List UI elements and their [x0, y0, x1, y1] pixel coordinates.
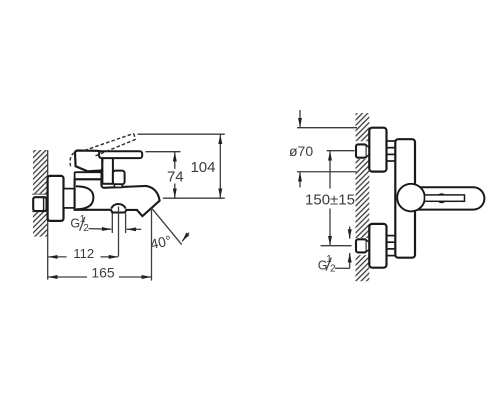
svg-text:104: 104 — [190, 159, 215, 176]
svg-text:ø70: ø70 — [289, 143, 313, 159]
74 dim — [174, 152, 176, 169]
ext line top (104) — [138, 133, 225, 135]
svg-text:2: 2 — [330, 264, 336, 275]
wall flange (escutcheon, side) — [48, 176, 64, 221]
150+-15 dim — [329, 151, 331, 188]
bottom flange — [369, 224, 386, 268]
center tick bottom — [321, 245, 352, 247]
lever bar (solid, horizontal) — [99, 151, 142, 158]
lever base (cartridge cover) — [75, 151, 102, 172]
bottom hex nut — [356, 239, 369, 252]
flange top ext line — [297, 127, 357, 129]
svg-text:G: G — [70, 217, 80, 231]
white bands for nuts — [355, 141, 369, 159]
G1/2 arrows right view — [349, 227, 351, 239]
wall face extension line — [47, 150, 49, 280]
104 dim — [219, 135, 221, 151]
G1/2 arrows — [89, 228, 112, 231]
svg-text:150±15: 150±15 — [305, 191, 355, 208]
supply pipe white band — [32, 194, 48, 212]
dome (check valve cap) — [76, 186, 93, 209]
supply nut G1/2 (in wall) — [33, 197, 46, 211]
dimension text G1/2 right view — [318, 254, 336, 275]
connector stub — [64, 189, 75, 208]
diverter knob — [113, 171, 125, 185]
baseline y=198.2 — [163, 197, 225, 199]
112 dim line — [48, 256, 66, 258]
bottom threaded connector — [387, 236, 396, 256]
wall hatch left view — [33, 150, 48, 237]
body column — [395, 139, 415, 258]
dashed lever (raised position) — [70, 134, 136, 167]
dia70 arrows — [299, 110, 301, 127]
spout tip ext line — [151, 208, 153, 280]
center tick top — [327, 150, 355, 152]
40 degree diagonal — [152, 208, 182, 244]
aerator arch — [111, 204, 125, 209]
flange bottom ext line — [297, 171, 357, 173]
collar band — [75, 172, 102, 179]
svg-text:112: 112 — [73, 246, 94, 261]
dimension text G1/2 left view — [70, 214, 89, 234]
lever (front, stadium) — [413, 187, 484, 209]
svg-text:74: 74 — [167, 168, 184, 185]
top hex nut — [356, 144, 369, 157]
ext line lever top (74) — [146, 151, 181, 153]
svg-text:165: 165 — [91, 265, 115, 281]
cartridge dome circle — [397, 184, 425, 212]
aerator ext lines — [111, 214, 113, 234]
lever slot — [425, 195, 465, 201]
top threaded connector — [387, 141, 396, 161]
svg-text:2: 2 — [83, 223, 89, 234]
cartridge housing — [102, 157, 113, 184]
body + spout outline — [75, 179, 160, 216]
top flange — [369, 128, 386, 172]
165 dim line — [48, 276, 87, 278]
wall hatch right view — [356, 113, 370, 281]
lever screw dot — [437, 193, 447, 203]
